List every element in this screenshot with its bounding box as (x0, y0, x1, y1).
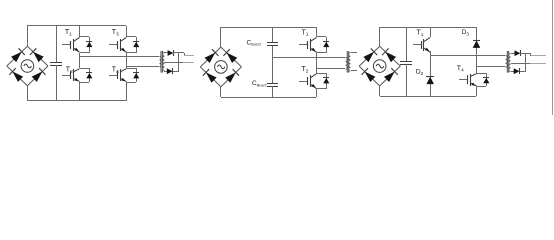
wire: node D to transformer3 primary top (430, 55, 505, 57)
wire: secondary1 center tap line (164, 62, 183, 64)
svg-text:T4: T4 (112, 66, 119, 74)
IGBT T4 (109, 69, 126, 82)
IGBT T1 (circuit3) (413, 37, 430, 52)
bridge B2 diode D lower-left (203, 69, 217, 83)
wire: bridge2 top corner to bus (220, 27, 222, 47)
IGBT T2 (circuit2) (299, 74, 317, 89)
transformer2 secondary winding (349, 53, 351, 72)
transformer3 core (507, 51, 508, 73)
IGBT T2 (62, 69, 80, 82)
wire: Cbus (circuit3) lower lead (406, 64, 408, 96)
wire: T3 collector to top bus (126, 26, 128, 37)
AC source inside bridge B3 (373, 60, 386, 73)
svg-text:T3: T3 (112, 29, 119, 37)
bridge B3 diode D lower-left (362, 68, 376, 82)
transformer2 primary winding (346, 58, 348, 70)
transformer2 core (347, 51, 348, 72)
wire: D5 cathode to output node (173, 52, 184, 54)
bridge B2 diode D lower-right (225, 69, 239, 83)
wire: circuit3 output negative stub (530, 63, 546, 65)
AC source inside bridge B1 (21, 60, 34, 73)
wire: bridge3 bottom corner to bus (379, 86, 381, 96)
wire: secondary3 top to output diode (511, 53, 515, 55)
svg-text:T4: T4 (457, 65, 464, 73)
wire: secondary1 top to output diode (164, 52, 168, 54)
wire: bridge1 bottom corner to bus (27, 86, 29, 101)
wire: transformer2 secondary bottom stub (351, 70, 357, 72)
wire: T1 collector to top bus (79, 26, 81, 37)
wire: circuit3 T4 emitter to bottom bus (476, 86, 478, 96)
wire: circuit2 T1 collector to top bus (316, 27, 318, 37)
IGBT T1 (circuit2) (299, 37, 317, 52)
wire: T3 emitter to T4 collector (switch node B) (126, 53, 128, 68)
wire: Cbus (circuit1) lower lead (56, 65, 58, 101)
bridge B1 diode D upper-right (30, 48, 44, 62)
wire: transformer2 secondary top stub (351, 52, 357, 54)
diode bridge rectifier B1 (diamond) (7, 46, 48, 86)
svg-text:D3: D3 (462, 29, 470, 37)
bridge B3 diode D upper-left (363, 48, 377, 62)
wire: circuit2 positive DC bus (top) (221, 27, 316, 29)
wire: Cbus/2 lower lead (272, 86, 274, 97)
IGBT T4 (circuit3) (459, 74, 477, 86)
wire: circuit3 D5 cathode to output node (520, 53, 531, 55)
capacitor Cbus (circuit1) plates (50, 63, 62, 66)
IGBT T1 (62, 37, 80, 52)
antiparallel diode of T2 (80, 68, 92, 83)
wire: diode join vertical (circuit1) (178, 53, 180, 71)
antiparallel diode of T1 (80, 37, 92, 54)
wire: secondary1 bottom to output diode (164, 71, 167, 73)
antiparallel diode of T2 (circuit2) (316, 73, 329, 89)
capacitor Cbus/2 (upper) plates (267, 43, 278, 46)
wire: circuit1 positive DC bus (top) (27, 25, 126, 27)
diode D2 (426, 77, 434, 85)
transformer3 primary winding (506, 56, 508, 68)
rectifier diode D5 (circuit3 top) (515, 50, 521, 56)
wire: circuit3 positive DC bus (top) (380, 27, 476, 29)
transformer3 secondary winding (509, 54, 511, 72)
svg-text:T1: T1 (302, 29, 309, 37)
svg-text:D2: D2 (416, 68, 424, 76)
bridge B2 diode D upper-left (205, 49, 219, 63)
wire: circuit3 output positive stub (531, 55, 546, 57)
transformer1 core (161, 51, 162, 73)
wire: circuit3 T1 emitter to node D (430, 51, 432, 55)
wire: bridge3 top corner to bus (379, 27, 381, 46)
wire: circuit1 negative DC bus (bottom) (27, 100, 126, 102)
wire: diode join vertical (circuit3) (525, 53, 527, 71)
wire: secondary3 bottom to output diode (511, 71, 514, 73)
wire: node E to transformer3 primary bottom (476, 66, 505, 68)
diode bridge rectifier B3 (diamond) (359, 46, 400, 86)
wire: circuit3 T1 collector to top bus (430, 27, 432, 37)
wire: T2 emitter to bottom bus (79, 82, 81, 101)
wire: circuit3 negative DC bus (bottom) (380, 96, 476, 98)
wire: D2 anode leg to bottom bus (430, 55, 432, 96)
figure border line (right edge) (552, 0, 554, 115)
wire: T4 emitter to bottom bus (126, 82, 128, 101)
antiparallel diode of T4 (126, 68, 139, 83)
wire: node A to transformer1 primary top (80, 56, 159, 58)
wire: circuit3 D6 cathode to join vertical (520, 71, 526, 73)
wire: T1 emitter to T2 collector (switch node A) (79, 53, 81, 68)
wire: circuit2 negative DC bus (bottom) (221, 97, 316, 99)
wire: D3 cathode leg from top bus (476, 27, 478, 73)
rectifier diode D6 (circuit1 bottom) (167, 68, 173, 74)
transformer1 secondary winding (163, 53, 165, 71)
wire: output jog (circuit3) (530, 53, 532, 56)
bridge B3 diode D lower-right (384, 68, 398, 82)
transformer1 primary winding (160, 57, 162, 67)
wire: circuit2 T2 emitter to bottom bus (316, 89, 318, 97)
bridge B3 diode D upper-right (382, 48, 396, 62)
diode D3 (473, 41, 481, 48)
IGBT T3 (109, 37, 126, 52)
wire: circuit1 output negative stub (183, 62, 194, 64)
wire: secondary3 center tap line (511, 63, 530, 65)
wire: output jog (circuit1) (184, 53, 186, 56)
wire: capacitor midpoint to transformer2 primary top (272, 57, 345, 59)
svg-text:T1: T1 (65, 29, 72, 37)
wire: D6 cathode to join vertical (173, 71, 179, 73)
wire: switch node to transformer2 primary bottom (316, 68, 345, 70)
antiparallel diode of T3 (126, 37, 139, 54)
wire: bridge2 bottom corner to bus (220, 87, 222, 97)
rectifier diode D5 (circuit1 top) (168, 50, 174, 56)
antiparallel diode of T4 (circuit3) (476, 73, 489, 87)
wire: capacitor midpoint vertical (272, 46, 274, 84)
antiparallel diode of T1 (circuit2) (316, 37, 329, 54)
svg-text:CBus/2: CBus/2 (247, 39, 262, 46)
capacitor Cbus/2 (lower) plates (267, 84, 278, 87)
wire: Cbus (circuit1) upper lead (56, 26, 58, 62)
bridge B1 diode D upper-left (11, 48, 25, 62)
bridge B2 diode D upper-right (223, 49, 237, 63)
wire: Cbus/2 upper lead (272, 27, 274, 42)
diode bridge rectifier B2 (diamond) (200, 47, 241, 87)
wire: circuit2 switch-node vertical (316, 53, 318, 73)
AC source inside bridge B2 (215, 61, 228, 74)
bridge B1 diode D lower-right (32, 68, 46, 82)
svg-text:T2: T2 (66, 66, 73, 74)
wire: circuit1 output positive stub (184, 55, 194, 57)
wire: bridge1 top corner to bus (27, 26, 29, 46)
capacitor Cbus (circuit3) plates (400, 62, 412, 65)
svg-text:T1: T1 (417, 30, 424, 38)
wire: node B to transformer1 primary bottom (126, 66, 159, 68)
svg-text:T2: T2 (302, 66, 309, 74)
bridge B1 diode D lower-left (9, 68, 23, 82)
rectifier diode D6 (circuit3 bottom) (514, 68, 520, 74)
svg-text:CBus/2: CBus/2 (252, 80, 267, 87)
wire: Cbus (circuit3) upper lead (406, 27, 408, 61)
